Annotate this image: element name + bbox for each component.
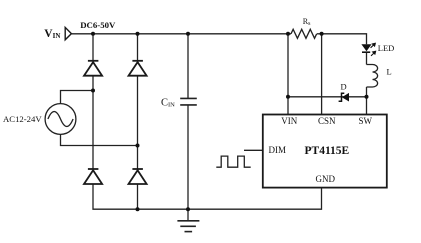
svg-text:DC6-50V: DC6-50V [80, 20, 116, 30]
svg-text:D: D [341, 82, 347, 92]
svg-text:CSN: CSN [318, 116, 336, 126]
svg-text:L: L [387, 67, 392, 77]
svg-text:PT4115E: PT4115E [305, 145, 350, 157]
svg-text:VIN: VIN [281, 116, 297, 126]
svg-text:SW: SW [359, 116, 373, 126]
svg-text:DIM: DIM [269, 145, 287, 155]
svg-text:GND: GND [316, 174, 336, 184]
svg-text:AC12-24V: AC12-24V [3, 114, 42, 124]
svg-text:LED: LED [378, 43, 395, 53]
